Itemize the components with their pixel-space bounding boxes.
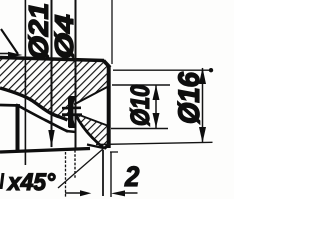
neck-to-corner bridge — [87, 145, 104, 149]
ext E4 y144 — [96, 142, 213, 144]
dia10 up arrow — [153, 85, 160, 100]
dia4 dimension line x75.5 — [75, 0, 77, 150]
throat slot top edge — [62, 107, 81, 110]
top-left leader arrow — [0, 53, 9, 55]
cone lower thin edge — [78, 115, 110, 127]
bottom extension line x111 — [110, 152, 112, 197]
bottom-right chamfer — [104, 144, 110, 149]
label dia16 rotated — [178, 72, 200, 124]
bottom extension line x65.5 dotted — [65, 152, 67, 197]
hatch lower right band — [77, 114, 110, 148]
dia16 down arrow — [199, 127, 206, 143]
right face — [107, 67, 111, 149]
label 2 — [125, 166, 139, 186]
label dia4 rotated — [54, 15, 73, 59]
dim2 right piece — [111, 190, 125, 196]
lower bell inner curve — [16, 105, 68, 132]
dia4 lower arrow — [69, 114, 76, 129]
throat slot bottom edge — [62, 113, 82, 116]
extension x112 above part — [111, 0, 113, 64]
upper bell curve — [0, 88, 68, 120]
cone upper edge — [74, 86, 110, 105]
throat left wall — [68, 97, 74, 127]
inner step horizontal — [0, 104, 20, 107]
hatch upper band — [0, 58, 110, 120]
label dia10 rotated — [130, 85, 149, 126]
chamfer leader — [58, 149, 104, 189]
dim2 left piece — [65, 192, 81, 194]
dia21 down arrow — [48, 130, 54, 148]
label dia21 rotated — [28, 4, 48, 59]
stub edge right of corner — [110, 151, 118, 153]
neck curve bottom right — [76, 116, 104, 149]
dia10 dim line — [155, 85, 157, 128]
dia4 upper arrow — [69, 96, 76, 110]
part outline: top edge — [0, 58, 104, 61]
bottom extension line x103 — [102, 150, 104, 196]
ext E2 y85 — [112, 84, 170, 86]
ext E1 y69.5 — [113, 69, 213, 71]
bottom edge — [0, 149, 90, 153]
dia21 dimension line x51.5 — [51, 0, 53, 147]
label x45 — [7, 173, 55, 190]
extension line x26 full height — [24, 0, 26, 165]
partial char far left — [0, 173, 5, 189]
top-right chamfer — [104, 61, 111, 68]
dia16 up arrow — [199, 68, 206, 85]
top-left leader diagonal — [1, 29, 18, 54]
inner step vertical — [16, 105, 20, 150]
ext E3 y128.5 — [111, 128, 168, 130]
dia16 dim line — [202, 68, 204, 143]
dia10 down arrow — [153, 113, 160, 128]
lower inner line — [66, 131, 76, 132]
